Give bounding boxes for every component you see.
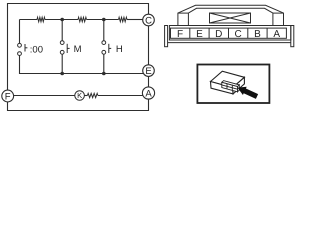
- svg-text::00: :00: [30, 44, 43, 55]
- terminal C: [143, 14, 155, 26]
- connector body: [168, 26, 291, 43]
- svg-text:M: M: [74, 44, 82, 55]
- relay module front face: [211, 82, 234, 94]
- resistor R4: [87, 93, 98, 97]
- terminal A: [142, 87, 154, 100]
- svg-text:A: A: [145, 88, 152, 99]
- node junction dot 2: [102, 18, 106, 22]
- svg-text:F: F: [177, 29, 183, 40]
- svg-text:E: E: [145, 66, 151, 77]
- svg-text:C: C: [145, 15, 152, 26]
- switch S2 M: [60, 41, 69, 55]
- panel border / circuit loop: [8, 4, 149, 111]
- svg-text:H: H: [116, 44, 123, 55]
- node bus dot 1: [60, 72, 64, 76]
- terminal F: [2, 90, 14, 102]
- node junction dot 1: [60, 18, 64, 22]
- wire bottom bus: [20, 73, 145, 75]
- connector end wall left: [165, 26, 168, 47]
- connector keyway X box: [210, 13, 251, 23]
- relay box frame: [197, 65, 269, 104]
- relay module top face: [211, 71, 245, 87]
- svg-text:E: E: [196, 29, 203, 40]
- svg-text:A: A: [273, 29, 280, 40]
- svg-text:C: C: [234, 29, 241, 40]
- svg-text:F: F: [5, 91, 11, 102]
- node bus dot 2: [102, 72, 106, 76]
- relay module right face: [233, 77, 245, 94]
- connector hood: [178, 5, 284, 25]
- switch S3 H: [102, 41, 111, 55]
- wire branch 3: [103, 20, 105, 75]
- resistor R3: [119, 17, 127, 21]
- terminal E: [143, 65, 155, 77]
- lamp K: [75, 91, 85, 101]
- wire branch 1: [19, 20, 21, 75]
- resistor R1: [37, 17, 45, 21]
- svg-text:B: B: [254, 29, 261, 40]
- wire lamp row: [14, 95, 143, 97]
- resistor R2: [78, 17, 86, 21]
- connector end wall right: [291, 26, 294, 47]
- relay arrow: [238, 87, 259, 99]
- svg-text:D: D: [215, 29, 222, 40]
- relay connector block: [222, 81, 240, 92]
- svg-text:K: K: [77, 91, 82, 100]
- wire top bus: [20, 19, 143, 21]
- connector cell row: [171, 28, 287, 38]
- switch S1 :00: [18, 43, 28, 55]
- wire branch 2: [61, 20, 63, 75]
